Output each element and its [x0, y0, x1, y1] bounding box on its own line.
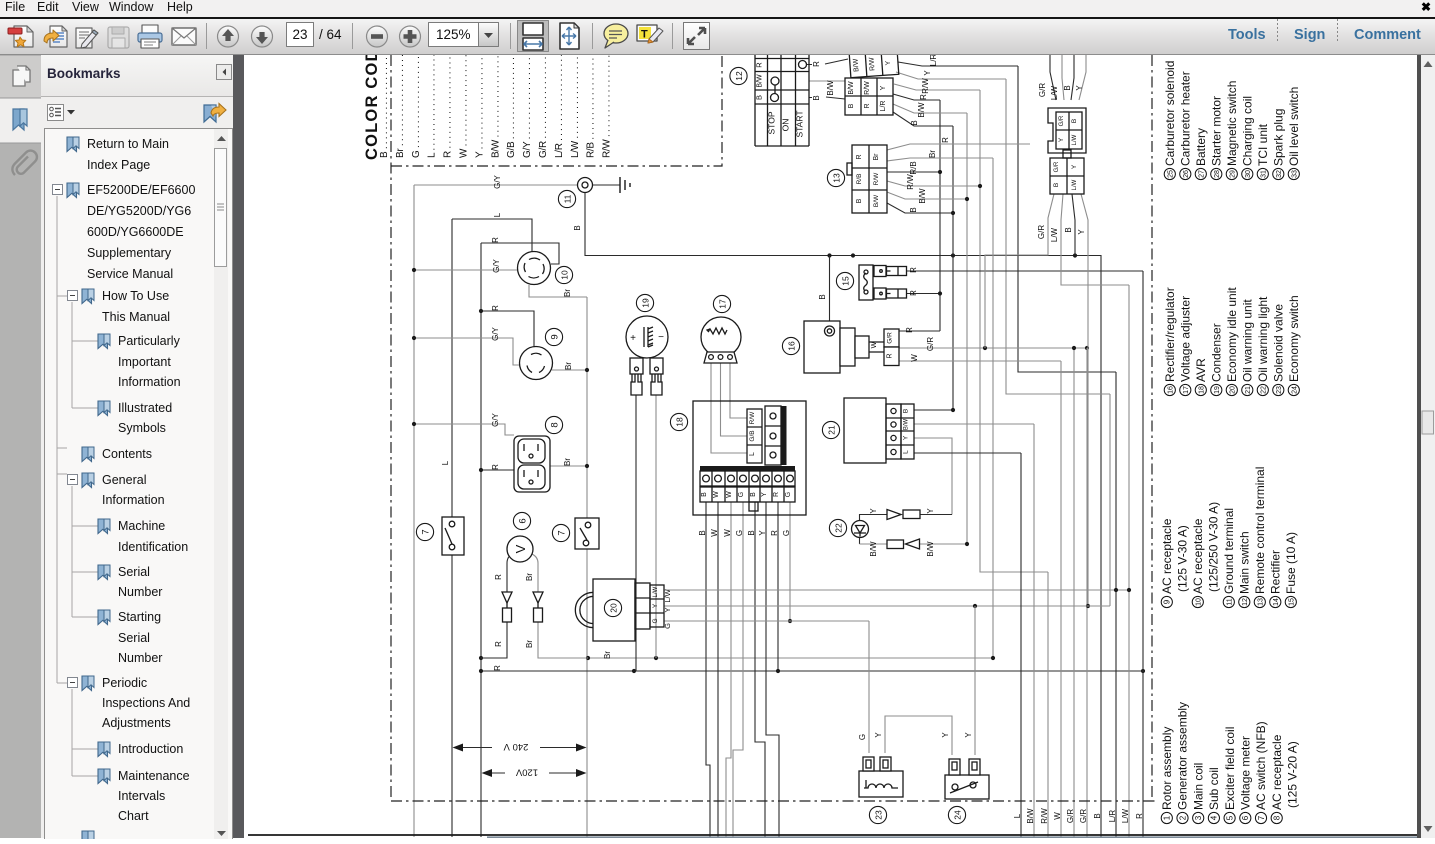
svg-text:11: 11: [562, 194, 572, 203]
svg-text:19: 19: [640, 298, 650, 308]
wire G/R from rectifier regulator: [899, 347, 1087, 349]
callout rectifier regulator: [782, 337, 799, 354]
paperclip icon: [12, 151, 37, 175]
svg-text:W . . . . . . . . . . . . . .: W . . . . . . . . . . . . . . . . . . . …: [459, 55, 470, 158]
components layer: [416, 50, 1086, 824]
svg-text:9: 9: [1163, 599, 1172, 604]
svg-text:Machine: Machine: [118, 519, 165, 533]
wire L/R vertical bus: [1115, 372, 1117, 837]
svg-text:Br: Br: [563, 458, 572, 466]
wire oil light B/W lead: [860, 543, 888, 545]
wire R bus lower: [481, 670, 1143, 672]
legend column 1: [1160, 702, 1300, 824]
svg-text:R: R: [770, 530, 779, 536]
condenser 19: [626, 316, 668, 395]
wire B battery down: [1072, 194, 1075, 256]
svg-text:Br: Br: [525, 573, 534, 581]
svg-text:B/W: B/W: [918, 188, 927, 204]
svg-text:G: G: [652, 618, 659, 623]
svg-text:R/W: R/W: [864, 81, 871, 95]
svg-text:6: 6: [1241, 815, 1250, 820]
junction: [776, 669, 780, 673]
svg-text:15: 15: [840, 276, 850, 286]
junction: [1114, 588, 1118, 592]
svg-text:G/Y: G/Y: [491, 412, 500, 426]
wire voltage adjuster lead 1: [711, 363, 747, 453]
svg-text:Supplementary: Supplementary: [87, 246, 172, 260]
svg-text:Sub coil: Sub coil: [1207, 767, 1221, 810]
svg-text:4: 4: [1210, 815, 1219, 820]
junction: [938, 170, 942, 174]
svg-text:R/W . . . . . . . . . . . . .: R/W . . . . . . . . . . . . . . . . . . …: [602, 55, 613, 158]
svg-text:26: 26: [1183, 170, 1190, 178]
wire G/Y to receptacle 10: [414, 269, 518, 271]
svg-text:G/R: G/R: [1037, 225, 1046, 239]
junction: [479, 309, 483, 313]
wire B from remote 13: [887, 203, 953, 213]
chain-line control panel box bottom: [391, 55, 722, 166]
wire L/W from economy idle: [664, 589, 1129, 591]
svg-text:R: R: [856, 154, 863, 159]
svg-text:This Manual: This Manual: [102, 310, 170, 324]
wire L/R jog: [1018, 66, 1116, 372]
svg-text:G/R: G/R: [887, 332, 894, 344]
callout oil warning light: [829, 519, 846, 536]
svg-text:Oil warning light: Oil warning light: [1256, 296, 1270, 382]
svg-text:Starter motor: Starter motor: [1210, 96, 1224, 166]
svg-text:L . . . . . . . . . . . . . .: L . . . . . . . . . . . . . . . . . . . …: [427, 55, 438, 158]
svg-text:R: R: [491, 305, 500, 311]
wire B/W from remote 13: [887, 192, 967, 199]
svg-text:Y: Y: [874, 732, 883, 738]
wire G/R battery down: [985, 194, 1054, 348]
solenoid valve 23: [859, 757, 903, 797]
junction: [654, 656, 658, 660]
svg-text:TCI unit: TCI unit: [1256, 123, 1270, 166]
wire G/R battery top: [1050, 55, 1056, 100]
junction: [951, 408, 955, 412]
svg-text:Introduction: Introduction: [118, 742, 183, 756]
wire voltmeter Br lead: [532, 554, 588, 658]
junction: [983, 346, 987, 350]
svg-text:(125 V-30 A): (125 V-30 A): [1176, 525, 1190, 592]
wire Y solenoid to economy switch: [885, 716, 952, 755]
svg-text:23: 23: [1276, 386, 1283, 394]
junction: [991, 656, 995, 660]
svg-text:G/Y: G/Y: [491, 326, 500, 340]
svg-text:2: 2: [1178, 815, 1187, 820]
svg-text:R/B: R/B: [909, 161, 918, 174]
svg-text:24: 24: [952, 810, 962, 820]
chain-line boundary rotor/generator assembly: [390, 55, 392, 801]
wire L/W battery top: [1062, 55, 1064, 100]
svg-text:Y . . . . . . . . . . . . . .: Y . . . . . . . . . . . . . . . . . . . …: [474, 55, 485, 158]
svg-text:23: 23: [873, 810, 883, 820]
svg-text:R: R: [905, 327, 914, 333]
wire oil light Y lead: [860, 515, 888, 545]
svg-text:Economy idle unit: Economy idle unit: [1225, 287, 1239, 382]
svg-text:30: 30: [1245, 170, 1252, 178]
printer icon: [138, 25, 162, 48]
svg-text:B: B: [1093, 813, 1102, 818]
save-as icon: [44, 26, 67, 47]
svg-text:Br . . . . . . . . . . . . . .: Br . . . . . . . . . . . . . . . . . . .…: [395, 55, 406, 158]
wire B from oil warning unit: [914, 409, 953, 411]
wire R to receptacle 9: [481, 311, 534, 347]
svg-text:Periodic: Periodic: [102, 676, 147, 690]
junction: [1072, 346, 1076, 350]
svg-text:R: R: [919, 94, 928, 100]
svg-text:27: 27: [1199, 170, 1206, 178]
svg-text:Y: Y: [880, 85, 887, 90]
svg-text:12: 12: [1242, 598, 1249, 606]
svg-text:G/R: G/R: [1079, 809, 1088, 823]
svg-text:32: 32: [1276, 170, 1283, 178]
svg-text:15: 15: [1289, 598, 1296, 606]
svg-text:B . . . . . . . . . . . . . .: B . . . . . . . . . . . . . . . . . . . …: [379, 55, 390, 158]
svg-text:R/W: R/W: [906, 174, 915, 190]
wire B/W from oil warning unit: [914, 423, 1034, 425]
legend column 3: [1163, 287, 1301, 396]
svg-text:Generator assembly: Generator assembly: [1176, 702, 1190, 810]
junction: [851, 253, 855, 257]
item text: [87, 137, 195, 823]
svg-text:W: W: [871, 341, 878, 348]
wire B AVR bus: [706, 502, 710, 837]
svg-text:/ 64: / 64: [319, 27, 342, 42]
svg-text:Br: Br: [603, 651, 612, 659]
callout voltage adjuster: [713, 295, 730, 312]
svg-text:R: R: [494, 574, 503, 580]
wire Br from receptacle 8: [550, 465, 587, 467]
AC receptacle 8: [514, 436, 550, 492]
callout receptacle 9: [545, 328, 562, 345]
svg-text:R: R: [493, 665, 502, 671]
wire W AVR bus: [726, 502, 731, 837]
svg-text:Symbols: Symbols: [118, 421, 166, 435]
scroll mode button (pressed): [518, 21, 549, 52]
junction: [965, 542, 969, 546]
svg-text:EF5200DE/EF6600: EF5200DE/EF6600: [87, 183, 195, 197]
svg-text:G/R: G/R: [1059, 115, 1065, 126]
wire G/Y to receptacle 9: [414, 338, 520, 365]
wire R/W from main switch: [894, 84, 980, 90]
svg-text:R: R: [1135, 813, 1144, 819]
callout voltage meter: [513, 512, 530, 529]
wire Br from receptacle 10: [529, 285, 587, 518]
diode on Br lead: [533, 592, 543, 603]
svg-text:Illustrated: Illustrated: [118, 401, 172, 415]
toolbar: [0, 19, 1435, 55]
svg-text:L/W: L/W: [1050, 85, 1059, 100]
junction: [1127, 588, 1131, 592]
svg-text:16: 16: [786, 341, 796, 351]
svg-text:B: B: [750, 492, 757, 497]
svg-text:Index Page: Index Page: [87, 158, 150, 172]
svg-text:28: 28: [1214, 170, 1221, 178]
svg-text:Service Manual: Service Manual: [87, 267, 173, 281]
svg-text:Serial: Serial: [118, 565, 150, 579]
svg-text:Ground terminal: Ground terminal: [1222, 508, 1236, 594]
svg-text:7: 7: [556, 530, 567, 535]
svg-text:R/W: R/W: [869, 57, 877, 71]
callout solenoid valve: [869, 806, 886, 823]
page number box: [287, 23, 343, 47]
svg-text:R/B . . . . . . . . . . . . .: R/B . . . . . . . . . . . . . . . . . . …: [586, 55, 597, 158]
voltage adjuster 17: [701, 317, 741, 363]
wire G/Y to receptacle 8: [414, 424, 514, 435]
junction: [1141, 669, 1145, 673]
zoom in button: [400, 26, 421, 47]
wire L vertical: [451, 219, 453, 837]
svg-text:B/W: B/W: [873, 194, 880, 207]
svg-text:G/R . . . . . . . . . . . . .: G/R . . . . . . . . . . . . . . . . . . …: [538, 55, 549, 158]
svg-text:Y: Y: [1058, 137, 1065, 142]
junction: [973, 604, 977, 608]
wire voltmeter R lead: [481, 554, 512, 658]
svg-text:B: B: [1053, 183, 1060, 187]
junction: [479, 656, 483, 660]
junction: [479, 669, 483, 673]
svg-text:25: 25: [1168, 170, 1175, 178]
callout fuse: [836, 272, 853, 289]
callout receptacle 10: [555, 266, 572, 283]
svg-text:B/W . . . . . . . . . . . . .: B/W . . . . . . . . . . . . . . . . . . …: [490, 55, 501, 158]
120V measure arrow: [483, 772, 585, 774]
wire main switch R: [807, 59, 849, 65]
wire G/R vertical bus: [1073, 348, 1075, 837]
resistor on R lead: [503, 608, 512, 622]
svg-text:Y: Y: [941, 732, 950, 738]
svg-text:L: L: [493, 212, 502, 217]
wire condenser right lead: [655, 395, 657, 658]
svg-text:G . . . . . . . . . . . . . .: G . . . . . . . . . . . . . . . . . . . …: [411, 55, 422, 158]
svg-text:B: B: [818, 294, 827, 299]
wire R from remote 13: [887, 144, 1030, 150]
ground terminal 11: [578, 177, 631, 193]
svg-text:G/R: G/R: [926, 337, 935, 351]
floppy disabled: [108, 27, 129, 48]
svg-text:R . . . . . . . . . . . . . .: R . . . . . . . . . . . . . . . . . . . …: [443, 55, 454, 158]
junction: [585, 368, 589, 372]
wire condenser left lead: [635, 395, 637, 671]
svg-text:START: START: [795, 110, 805, 137]
wire W vertical bus: [1060, 361, 1062, 837]
svg-text:10: 10: [1196, 598, 1203, 606]
wire R from rectifier regulator: [899, 330, 940, 332]
wire Br from remote 13: [887, 158, 993, 161]
svg-text:240 V: 240 V: [503, 741, 528, 752]
remote control connector: [845, 50, 899, 115]
svg-text:B/W: B/W: [917, 102, 926, 118]
svg-text:6: 6: [517, 518, 528, 523]
svg-text:31: 31: [1261, 170, 1268, 178]
svg-text:17: 17: [717, 299, 727, 309]
svg-text:B: B: [747, 530, 756, 535]
svg-text:22: 22: [1261, 386, 1268, 394]
svg-text:B: B: [909, 207, 918, 212]
page down button: [252, 26, 273, 47]
callout economy idle unit: [604, 599, 621, 616]
chain-line boundary right: [1151, 55, 1153, 801]
AC switch 7 right: [575, 518, 599, 549]
svg-text:L/R . . . . . . . . . . . . .: L/R . . . . . . . . . . . . . . . . . . …: [554, 55, 565, 158]
svg-text:B/W: B/W: [904, 419, 910, 431]
svg-text:Exciter field coil: Exciter field coil: [1223, 727, 1237, 810]
wire Y from economy idle: [664, 605, 1110, 607]
chain-line boundary bottom: [391, 800, 1158, 802]
svg-text:Carburetor solenoid: Carburetor solenoid: [1163, 61, 1177, 166]
svg-text:B/W: B/W: [757, 74, 764, 88]
junction: [479, 468, 483, 472]
AC switch 7 left: [442, 517, 464, 555]
svg-text:Br: Br: [563, 289, 572, 297]
svg-text:L/W: L/W: [1072, 134, 1078, 145]
svg-text:B: B: [701, 492, 708, 497]
callout oil warning unit: [822, 421, 839, 438]
svg-text:R: R: [941, 137, 950, 143]
wire main switch B/W: [809, 80, 845, 82]
wire R/W from remote 13: [887, 181, 980, 186]
svg-text:21: 21: [1245, 386, 1252, 394]
resistor on Br lead: [534, 608, 543, 622]
svg-text:Rectifier/regulator: Rectifier/regulator: [1163, 287, 1177, 382]
svg-text:L: L: [749, 452, 756, 456]
svg-text:G: G: [738, 492, 745, 497]
svg-text:L: L: [903, 450, 910, 454]
junction: [412, 422, 416, 426]
wires bus lines: [412, 54, 1145, 837]
wire Br from receptacle 9: [552, 369, 587, 371]
svg-text:9: 9: [549, 334, 560, 339]
wire Y from oil warning unit: [914, 438, 952, 515]
svg-text:8: 8: [549, 422, 560, 427]
svg-text:33: 33: [1292, 170, 1299, 178]
junction: [632, 669, 636, 673]
svg-text:Voltage meter: Voltage meter: [1239, 736, 1253, 810]
oil warning unit 21: [844, 398, 914, 463]
svg-text:L/W . . . . . . . . . . . . .: L/W . . . . . . . . . . . . . . . . . . …: [570, 55, 581, 158]
svg-text:W: W: [726, 491, 733, 498]
svg-text:G/Y: G/Y: [492, 258, 501, 272]
svg-text:Y: Y: [923, 70, 932, 76]
svg-text:Y: Y: [1071, 164, 1078, 169]
svg-text:R/W: R/W: [749, 411, 756, 425]
svg-text:How To Use: How To Use: [102, 289, 169, 303]
svg-text:W: W: [723, 529, 732, 537]
wire R/B from remote 13: [887, 171, 940, 173]
svg-text:Serial: Serial: [118, 631, 150, 645]
svg-text:Charging coil: Charging coil: [1241, 96, 1255, 166]
junction: [586, 656, 590, 660]
wire G AVR bus: [789, 502, 791, 621]
wire R from fuse bottom: [907, 293, 941, 295]
svg-text:G: G: [735, 530, 744, 536]
svg-text:L: L: [441, 460, 450, 465]
svg-text:B: B: [1063, 85, 1072, 90]
wire R/W vertical bus: [1047, 572, 1049, 837]
junction: [788, 619, 792, 623]
callout remote control terminal: [827, 169, 844, 186]
svg-text:7: 7: [420, 529, 431, 534]
legend column 4: [1163, 61, 1301, 180]
svg-text:7: 7: [1257, 815, 1266, 820]
wire B vertical mid: [952, 126, 954, 410]
legend column 2: [1160, 467, 1298, 608]
wire G/Y vertical: [413, 185, 415, 837]
svg-text:+: +: [630, 333, 636, 344]
svg-text:B: B: [910, 120, 919, 125]
junction: [938, 291, 942, 295]
svg-text:Oil level switch: Oil level switch: [1287, 87, 1301, 166]
junction: [412, 336, 416, 340]
wire R to receptacle 10: [481, 243, 559, 264]
svg-text:22: 22: [833, 523, 843, 533]
wire R vertical bus: [1142, 271, 1144, 837]
junction: [965, 197, 969, 201]
svg-text:24: 24: [1292, 386, 1299, 394]
svg-text:W: W: [713, 491, 720, 498]
svg-text:120V: 120V: [515, 767, 538, 778]
svg-text:G/R: G/R: [1054, 161, 1060, 172]
svg-text:AC switch (NFB): AC switch (NFB): [1254, 721, 1268, 810]
svg-text:Y: Y: [926, 508, 935, 514]
svg-text:Y: Y: [1077, 229, 1086, 235]
svg-text:B: B: [848, 103, 855, 108]
menu bar: [0, 0, 1435, 17]
color code leader columns: [379, 0, 613, 158]
svg-text:Y: Y: [964, 732, 973, 738]
wire G/R vertical bus 2: [1086, 348, 1088, 837]
svg-text:Br: Br: [928, 150, 937, 158]
junction: [1073, 253, 1077, 257]
svg-text:G/R: G/R: [1066, 809, 1075, 823]
svg-text:Solenoid valve: Solenoid valve: [1272, 304, 1286, 382]
svg-text:L/W: L/W: [1121, 808, 1130, 823]
svg-text:Particularly: Particularly: [118, 334, 181, 348]
svg-text:Condenser: Condenser: [1210, 323, 1224, 382]
svg-text:STOP: STOP: [767, 111, 777, 134]
wire B to rectifier regulator: [829, 256, 831, 322]
svg-text:Intervals: Intervals: [118, 789, 165, 803]
svg-text:G/Y: G/Y: [493, 174, 502, 188]
svg-text:Return to Main: Return to Main: [87, 137, 169, 151]
svg-text:Main coil: Main coil: [1191, 763, 1205, 810]
callout receptacle 8: [545, 416, 562, 433]
wire G from economy idle: [664, 620, 869, 622]
svg-text:ON: ON: [781, 119, 791, 132]
svg-text:L/W: L/W: [653, 586, 659, 597]
svg-text:Information: Information: [118, 375, 181, 389]
svg-text:B/W: B/W: [1026, 808, 1035, 824]
tree connector lines: [57, 196, 98, 776]
svg-text:19: 19: [1214, 386, 1221, 394]
svg-text:DE/YG5200D/YG6: DE/YG5200D/YG6: [87, 204, 191, 218]
svg-text:Chart: Chart: [118, 809, 149, 823]
svg-text:1: 1: [1163, 815, 1172, 820]
diode on R lead: [502, 592, 512, 603]
battery starter connector: [1048, 108, 1086, 194]
economy switch 24: [945, 759, 989, 799]
wire voltage adjuster lead 3: [730, 363, 747, 418]
wire L from oil warning unit: [914, 452, 1021, 454]
wire B/W diode out: [920, 543, 968, 545]
wire Y vertical: [1109, 394, 1111, 606]
svg-text:R: R: [864, 103, 871, 108]
svg-text:11: 11: [1227, 598, 1234, 605]
svg-text:R: R: [909, 267, 918, 273]
wire R/W jog: [980, 90, 1048, 572]
